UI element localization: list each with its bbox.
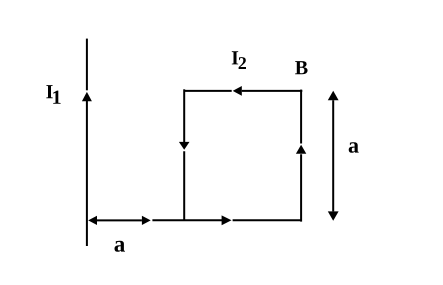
loop bottom edge, right part — [233, 219, 302, 221]
current arrow on loop bottom edge (points right) — [222, 215, 232, 225]
label B — [295, 61, 308, 74]
loop right edge, upper segment — [300, 90, 302, 144]
side-length arrow a (vertical double-headed, right of loop) — [328, 91, 339, 221]
label a (bottom, distance between wire and loop) — [115, 241, 126, 252]
label I2 — [232, 51, 246, 69]
wire I1 (long straight wire, upper segment) — [86, 39, 88, 91]
loop left edge, lower segment — [183, 151, 185, 220]
label I1 — [46, 85, 60, 104]
current arrow on loop right edge (points up) — [296, 145, 306, 154]
loop top edge, left part — [184, 90, 232, 92]
loop right edge, lower segment — [300, 154, 302, 221]
distance arrow a (horizontal double-headed, wire to loop) — [88, 216, 151, 225]
loop bottom edge arrow shaft — [152, 219, 222, 221]
loop top edge, right part — [242, 90, 302, 92]
loop left edge, upper segment — [183, 89, 185, 142]
current arrow on wire I1 (points up) — [82, 92, 92, 101]
current arrow I2 on top edge (points left) — [233, 86, 242, 96]
label a (right, loop side length) — [349, 142, 359, 153]
current arrow on loop left edge (points down) — [179, 142, 190, 150]
wire I1 (long straight wire, lower segment) — [86, 101, 88, 246]
